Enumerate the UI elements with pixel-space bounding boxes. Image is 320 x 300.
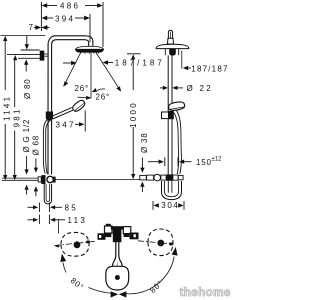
svg-text:394: 394	[55, 14, 75, 23]
svg-text:187/187: 187/187	[191, 64, 228, 73]
svg-text:±12: ±12	[212, 157, 223, 163]
dimension 187/187 (left view)	[63, 60, 113, 65]
dimension 113 (front/top view)	[28, 215, 66, 225]
flange lines	[21, 49, 40, 51]
right knob	[123, 227, 131, 234]
spray cone center line	[90, 53, 92, 99]
ball joint below saucer	[164, 49, 166, 55]
svg-text:187/187: 187/187	[115, 58, 165, 67]
collar nub	[167, 38, 173, 44]
svg-text:Ø G 1/2: Ø G 1/2	[22, 119, 31, 153]
center body	[113, 229, 122, 242]
svg-text:thehome: thehome	[180, 285, 231, 299]
hose U loop (side view)	[162, 181, 182, 200]
svg-text:347: 347	[56, 121, 76, 130]
svg-text:150: 150	[196, 158, 212, 167]
handshower head (side view)	[168, 101, 185, 111]
hose U loop below valve (front view)	[44, 184, 51, 204]
dimension arrows Ø68	[34, 159, 38, 197]
top bar	[111, 226, 124, 229]
small bottom bits	[105, 233, 112, 238]
top reference line	[1, 34, 46, 36]
left position tick	[86, 240, 90, 243]
swivel arc right with arrowhead	[125, 257, 175, 294]
arm stub (side view, top)	[168, 30, 172, 38]
dimension 981 (vertical)	[13, 55, 18, 180]
svg-text:Ø 68: Ø 68	[32, 135, 41, 156]
dimension arrows ØG1/2	[25, 156, 29, 195]
dimension 304	[153, 201, 184, 210]
bracket stem to pole	[44, 53, 48, 55]
svg-text:85: 85	[65, 203, 79, 212]
handshower head (front view)	[71, 99, 86, 113]
holder knob on pole	[46, 112, 53, 120]
axis line to 1000 dim	[55, 178, 141, 180]
dimension 187/187 (side view)	[181, 51, 183, 69]
pole with arm bend (front view)	[48, 36, 87, 175]
spray cone right line with arrow	[96, 53, 121, 92]
svg-text:486: 486	[60, 1, 80, 10]
swivel arc left with arrowhead	[89, 288, 113, 294]
overhead disc (side view, white saucer)	[156, 44, 189, 48]
Ø38 arrows	[140, 158, 144, 193]
dimension 1141 (vertical, left)	[3, 36, 7, 180]
thermostat valve (side view)	[140, 176, 147, 180]
svg-text:981: 981	[12, 107, 21, 127]
left knob	[105, 226, 113, 233]
right wing	[130, 233, 139, 240]
supply pipe line (left, double)	[2, 177, 38, 179]
dimension 394	[42, 14, 90, 42]
valve top view cluster	[98, 224, 139, 242]
right position tick	[169, 242, 173, 245]
bottom bowtie arrows	[111, 291, 119, 297]
axis arrowhead left end	[54, 244, 59, 247]
wand (top view)	[112, 230, 115, 267]
svg-text:Ø 22: Ø 22	[187, 84, 214, 93]
hose along pole (front view)	[43, 119, 48, 174]
dash-dot axis through valve	[55, 241, 172, 246]
dimension 1000 (vertical)	[127, 54, 141, 179]
spray cone left line with arrow	[63, 53, 80, 87]
left wing	[98, 233, 106, 240]
wall bracket (front view, black)	[40, 51, 45, 61]
svg-text:304: 304	[161, 201, 179, 210]
svg-text:26°: 26°	[75, 84, 90, 93]
valve assembly (front view)	[38, 177, 41, 182]
holder (side view)	[162, 112, 169, 119]
dimension Ø22	[160, 86, 183, 90]
dimension Ø80 (flange)	[24, 36, 29, 72]
svg-text:Ø 80: Ø 80	[23, 78, 32, 99]
svg-text:113: 113	[68, 216, 88, 225]
hose upper (side view)	[177, 111, 182, 175]
dimension 85	[28, 203, 63, 213]
svg-text:1141: 1141	[3, 95, 12, 121]
extension to parked position	[58, 219, 60, 234]
left dashed circle (parked handshower)	[61, 232, 89, 256]
handshower head (top view)	[106, 266, 129, 290]
svg-text:1000: 1000	[129, 101, 138, 128]
pole (side view)	[167, 55, 169, 174]
right dashed circle (parked handshower)	[148, 229, 173, 256]
dimension 486	[41, 2, 103, 47]
dimension 150±12	[148, 157, 192, 166]
arm drop to overhead disc	[87, 36, 93, 46]
overhead shower disc (front view, dark lens)	[76, 46, 104, 49]
handshower handle	[52, 108, 72, 117]
svg-text:26°: 26°	[96, 93, 111, 102]
spray nozzles under disc	[81, 52, 99, 54]
svg-text:Ø 38: Ø 38	[140, 132, 149, 153]
